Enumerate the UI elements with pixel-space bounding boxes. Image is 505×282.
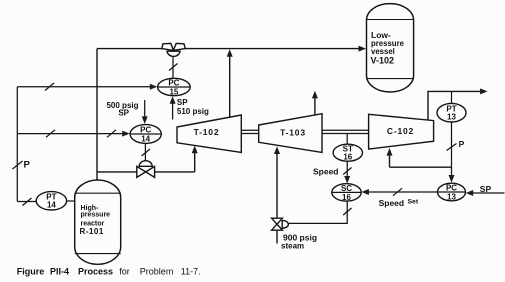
wire: branch to control valve and T-102 inlet	[97, 150, 195, 172]
wire: top line from reactor riser to V-102	[97, 48, 362, 50]
svg-text:16: 16	[342, 193, 351, 202]
svg-text:SP: SP	[118, 109, 129, 118]
signal: SC-16 output to steam valve	[289, 201, 347, 223]
bubble PT-14	[36, 192, 66, 210]
wire: PC-14 output to valve	[144, 143, 146, 161]
svg-text:Process: Process	[78, 266, 113, 276]
svg-text:Set: Set	[408, 199, 419, 206]
svg-text:T-103: T-103	[280, 128, 306, 138]
svg-text:16: 16	[343, 153, 352, 162]
svg-text:C-102: C-102	[387, 126, 414, 136]
slash on PC-14 output	[142, 149, 151, 156]
slash	[45, 83, 54, 91]
svg-text:T-102: T-102	[194, 127, 220, 137]
arrow up at top wire junction	[227, 49, 233, 57]
bubble PC-14	[130, 125, 161, 144]
turbine T-102	[177, 115, 241, 152]
valve V (top control valve)	[162, 43, 185, 56]
arrow into C-102 bottom	[387, 148, 393, 156]
svg-text:V-102: V-102	[371, 56, 395, 66]
wire: PT-13 tap	[451, 91, 453, 103]
svg-text:PC: PC	[140, 126, 151, 135]
signal: PT-13 down to PC-13	[451, 122, 453, 178]
wire: PC-15 output to top valve	[172, 57, 174, 78]
signal: SP into PC-15 bottom	[172, 101, 174, 120]
svg-text:Problem: Problem	[140, 266, 174, 276]
signal: ST-16 to SC-16	[346, 161, 348, 179]
arrow discharge right	[480, 88, 488, 94]
steam valve	[272, 218, 289, 230]
arrow into T-103 bottom	[274, 146, 280, 154]
svg-text:13: 13	[447, 113, 456, 122]
vessel R-101	[75, 180, 121, 264]
svg-text:steam: steam	[281, 242, 304, 251]
svg-text:11-7.: 11-7.	[181, 266, 201, 276]
slash on PC-15 output	[169, 64, 178, 71]
signal: shaft tap to ST-16	[346, 134, 348, 145]
bubble PT-13	[437, 103, 466, 122]
shaft T-102/T-103	[241, 130, 258, 133]
svg-text:PII-4: PII-4	[50, 266, 69, 276]
svg-text:P: P	[459, 139, 465, 149]
svg-text:Speed: Speed	[313, 167, 339, 177]
bubble PC-15	[158, 78, 191, 95]
svg-text:PC: PC	[168, 79, 179, 88]
svg-text:for: for	[119, 266, 130, 276]
wire: C-102 suction	[390, 153, 452, 168]
wire: reactor outlet vertical x=97	[96, 49, 98, 181]
signal: to PC-14	[17, 133, 125, 135]
wire: T-102 exhaust riser	[229, 53, 231, 118]
signal: left vertical from PT-14	[16, 87, 18, 202]
turbine T-103	[259, 114, 322, 153]
signal: into PT-14	[17, 201, 36, 203]
svg-text:510 psig: 510 psig	[177, 107, 209, 116]
wire: PT-14 to reactor tap	[67, 200, 75, 202]
slashes	[46, 130, 55, 138]
vessel V-102	[367, 4, 414, 92]
svg-text:14: 14	[141, 134, 150, 143]
svg-text:SC: SC	[341, 184, 352, 193]
svg-text:14: 14	[47, 201, 56, 210]
slash on left vertical	[13, 161, 23, 169]
bubble ST-16	[333, 144, 362, 161]
svg-text:R-101: R-101	[80, 227, 104, 236]
wire: steam pipe valve to T-103	[276, 151, 278, 218]
signal: SP into PC-13	[470, 192, 505, 194]
bubble PC-13	[438, 183, 466, 201]
svg-text:Speed: Speed	[379, 198, 405, 208]
signal: SP into PC-14 top	[144, 100, 146, 119]
valve under PC-14	[137, 161, 155, 178]
wire: C-102 discharge	[428, 91, 483, 121]
signal: to PC-15	[17, 86, 153, 88]
signal: PC-13 to SC-16	[366, 191, 438, 193]
svg-text:13: 13	[447, 192, 456, 201]
bubble SC-16	[332, 184, 361, 201]
shaft T-103/C-102	[322, 130, 369, 133]
arrow into T-102 bottom	[192, 146, 198, 154]
wire: T-103 vent riser	[314, 95, 316, 115]
svg-text:SP: SP	[480, 184, 492, 194]
arrow vent up	[312, 91, 318, 99]
caption	[17, 266, 201, 276]
svg-text:SP: SP	[177, 98, 188, 107]
svg-text:P: P	[24, 160, 31, 171]
svg-text:pressure: pressure	[81, 212, 111, 219]
svg-text:Figure: Figure	[17, 266, 45, 276]
wire: steam supply below valve	[276, 230, 278, 243]
compressor C-102	[369, 114, 434, 149]
svg-text:PC: PC	[446, 184, 457, 193]
wire: arrow into V-102	[359, 46, 367, 52]
svg-text:15: 15	[169, 87, 178, 96]
